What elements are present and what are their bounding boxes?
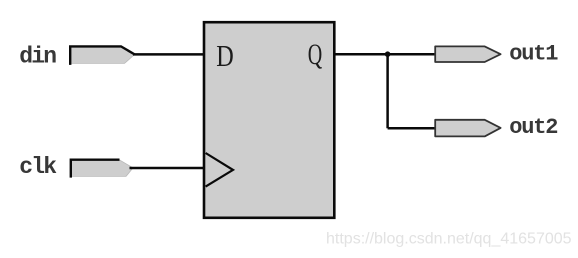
flip-flop box U1	[204, 22, 334, 218]
junction dot	[385, 51, 391, 57]
port tag din	[70, 46, 134, 65]
svg-text:clk: clk	[19, 154, 57, 180]
clock wedge	[206, 153, 233, 187]
wire Q to junction and out1	[334, 53, 436, 56]
svg-text:out2: out2	[509, 115, 557, 140]
port tag out1	[435, 46, 500, 62]
port tag clk	[71, 160, 133, 178]
wire clk	[130, 167, 206, 170]
svg-text:Q: Q	[308, 38, 323, 71]
port tag out2	[435, 120, 500, 137]
svg-text:out1: out1	[509, 41, 558, 66]
svg-text:https://blog.csdn.net/qq_41657: https://blog.csdn.net/qq_41657005	[326, 231, 572, 248]
wire din	[133, 53, 205, 56]
svg-text:din: din	[19, 44, 56, 70]
wire branch vertical	[386, 54, 389, 128]
wire branch to out2	[388, 127, 436, 130]
svg-text:D: D	[216, 38, 234, 73]
